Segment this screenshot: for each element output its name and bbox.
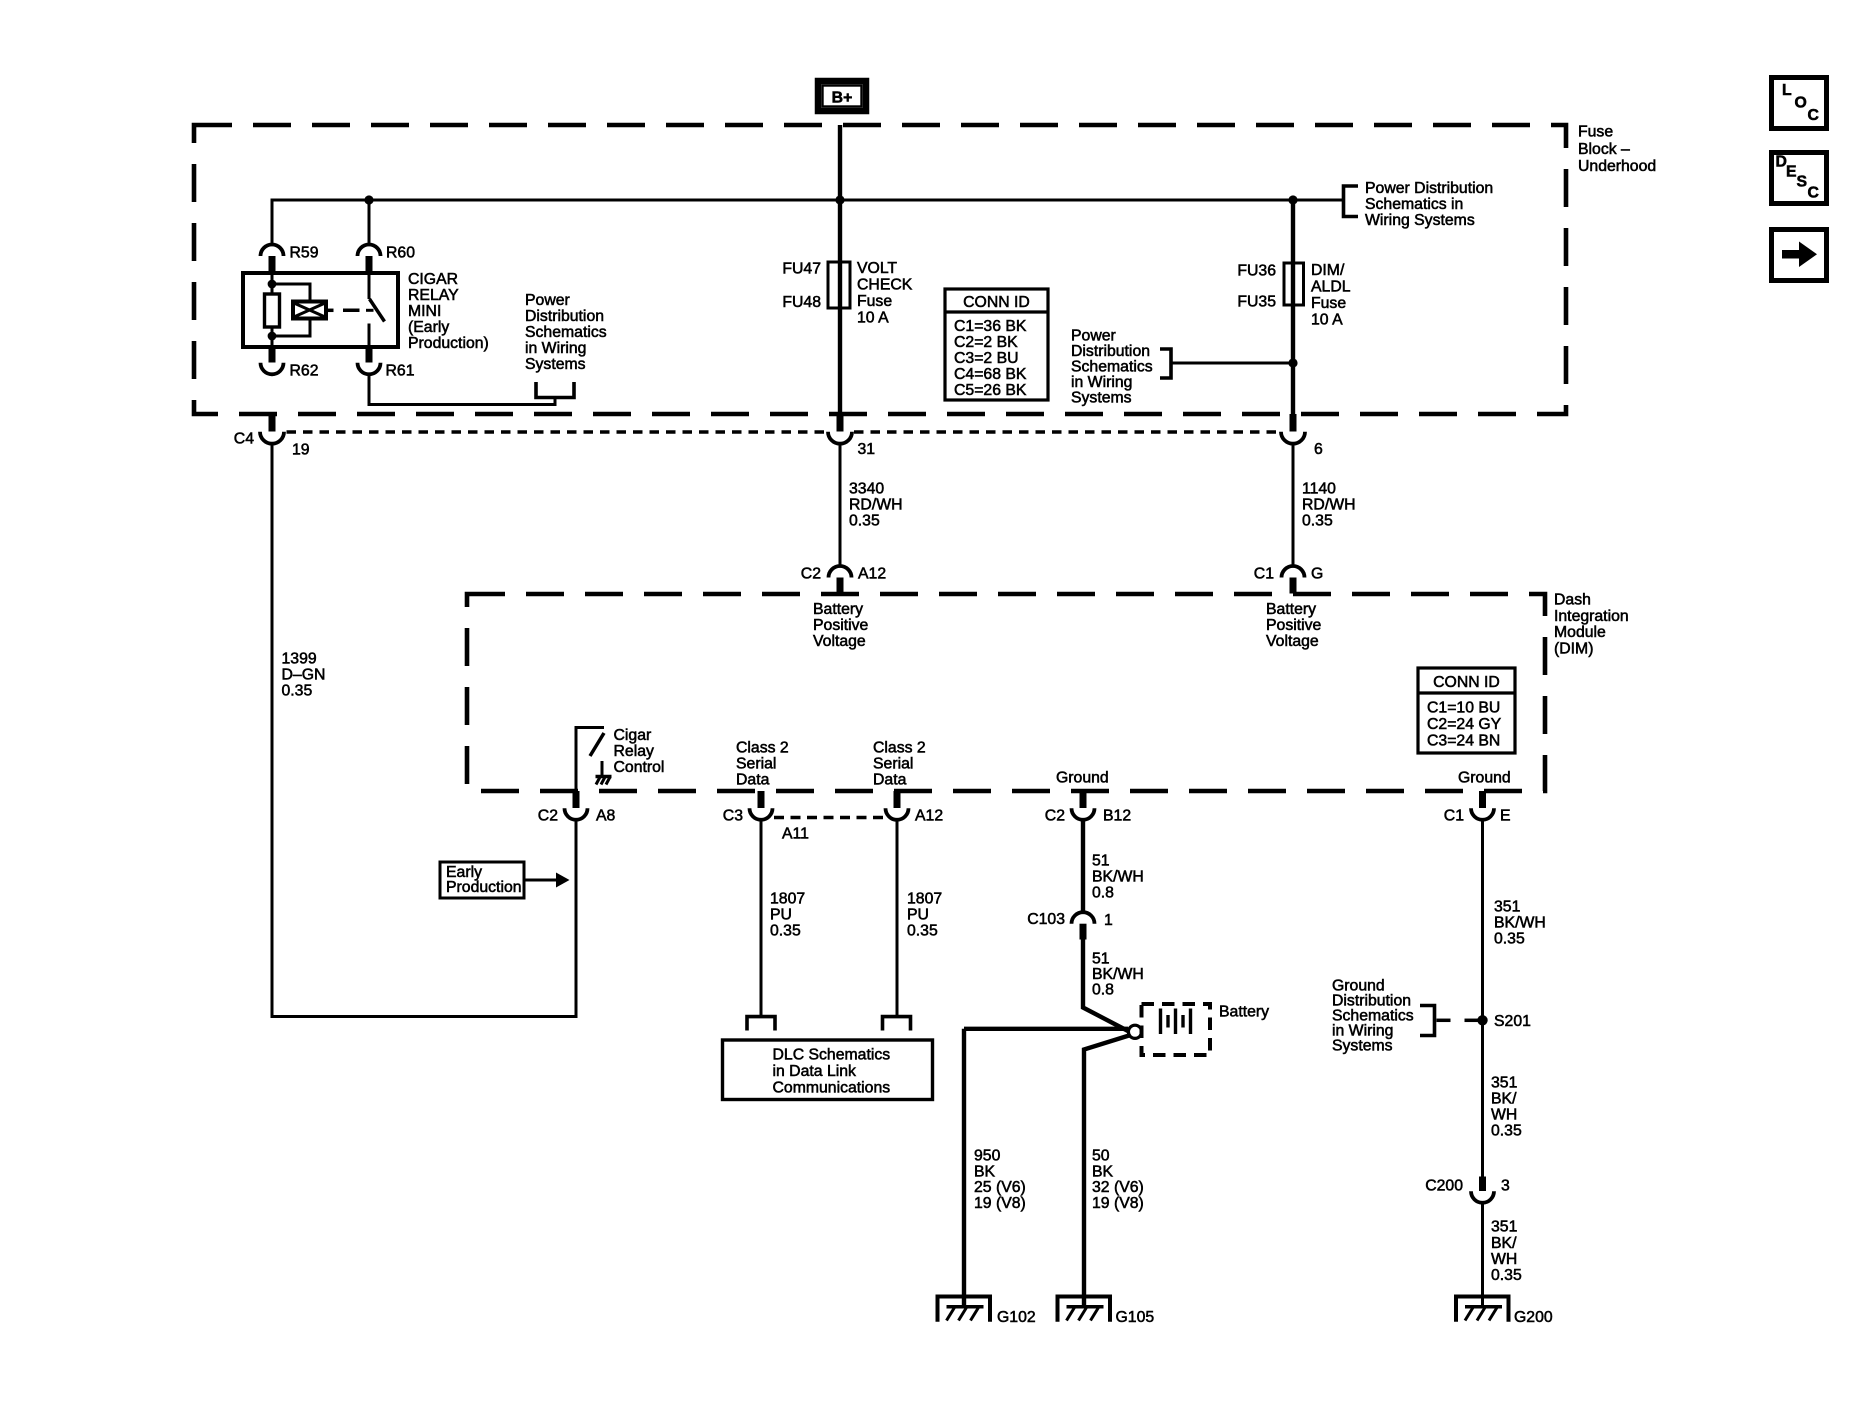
svg-text:C2=24 GY: C2=24 GY [1427, 716, 1502, 733]
svg-text:Communications: Communications [773, 1080, 891, 1097]
svg-text:Fuse: Fuse [857, 293, 892, 310]
node coil bottom [268, 332, 277, 341]
svg-text:CIGAR: CIGAR [408, 271, 458, 288]
svg-text:DLC Schematics: DLC Schematics [773, 1047, 891, 1064]
svg-text:Positive: Positive [1266, 617, 1322, 634]
svg-text:C1=36 BK: C1=36 BK [954, 318, 1027, 335]
connector C2 pin A8 (DIM bottom) [538, 791, 616, 825]
node coil top [268, 280, 277, 289]
LOC navigation icon [1772, 78, 1827, 129]
connector C2 pin B12 (DIM bottom) [1045, 791, 1131, 825]
svg-text:0.35: 0.35 [907, 923, 938, 940]
forward arrow icon [1772, 230, 1827, 281]
connector pin R62 [261, 347, 319, 380]
B+ power symbol [818, 81, 866, 111]
bracket ground distribution [1420, 1006, 1435, 1036]
svg-text:R60: R60 [386, 244, 415, 261]
svg-text:Cigar: Cigar [614, 727, 652, 744]
svg-text:Serial: Serial [736, 756, 776, 773]
svg-text:C103: C103 [1027, 911, 1065, 928]
wire 351 BK/WH (S201 to C200) [1491, 1075, 1522, 1140]
svg-text:0.35: 0.35 [1491, 1123, 1522, 1140]
connector pin R59 [261, 244, 319, 273]
svg-text:Relay: Relay [614, 743, 654, 760]
connector C3 pin A11 (DIM bottom) [723, 791, 773, 825]
svg-text:Production: Production [446, 879, 522, 896]
svg-text:Power: Power [1071, 328, 1116, 345]
Fuse Block - Underhood dashed box [194, 124, 1656, 415]
wire 1807 PU (C3 to DLC) [761, 820, 805, 1017]
wire DIM/ALDL branch [1291, 200, 1295, 414]
svg-text:Positive: Positive [813, 617, 869, 634]
wire 50 BK down to G105 [1084, 1036, 1144, 1307]
wire 351 BK/WH (C200 to G200) [1483, 1203, 1522, 1307]
connector pin 6 [1281, 414, 1323, 458]
CONN ID table DIM [1418, 668, 1515, 753]
ground G105 [1058, 1297, 1155, 1327]
svg-text:Ground: Ground [1056, 770, 1109, 787]
svg-text:Systems: Systems [1332, 1037, 1393, 1054]
svg-text:Systems: Systems [1071, 390, 1132, 407]
svg-text:Data: Data [873, 772, 907, 789]
svg-text:25 (V6): 25 (V6) [974, 1179, 1026, 1196]
label power distribution schematics (mid) [1071, 328, 1153, 407]
mechanical link dashes coil to switch [326, 309, 360, 313]
svg-text:950: 950 [974, 1148, 1001, 1165]
svg-text:10 A: 10 A [1311, 312, 1343, 329]
svg-text:19 (V8): 19 (V8) [974, 1195, 1026, 1212]
svg-text:51: 51 [1092, 951, 1110, 968]
connector C1 pin E (DIM bottom) [1444, 791, 1511, 825]
svg-text:0.35: 0.35 [1494, 931, 1525, 948]
svg-text:Schematics in: Schematics in [1365, 196, 1463, 213]
wire to G102 (horizontal from splice) [964, 1027, 1128, 1031]
svg-text:Underhood: Underhood [1578, 158, 1656, 175]
relay coil box with X [293, 302, 326, 319]
wire 51 BK/WH lower (C103 to battery splice) [1083, 940, 1144, 1032]
svg-text:A8: A8 [596, 808, 616, 825]
wire 3340 RD/WH [840, 443, 903, 566]
bracket top right power distribution [1344, 186, 1359, 217]
svg-text:WH: WH [1491, 1107, 1517, 1124]
label battery positive voltage (right) [1266, 601, 1322, 650]
svg-text:351: 351 [1494, 899, 1521, 916]
svg-text:351: 351 [1491, 1219, 1518, 1236]
wire 51 BK/WH upper (B12 to C103) [1083, 820, 1144, 914]
svg-text:1140: 1140 [1302, 481, 1336, 498]
svg-text:19 (V8): 19 (V8) [1092, 1195, 1144, 1212]
svg-text:6: 6 [1314, 441, 1323, 458]
svg-text:ALDL: ALDL [1311, 279, 1351, 296]
svg-text:G105: G105 [1116, 1309, 1155, 1326]
svg-text:FU35: FU35 [1237, 294, 1276, 311]
svg-text:0.35: 0.35 [849, 513, 880, 530]
svg-text:G102: G102 [997, 1309, 1036, 1326]
svg-text:C3=2 BU: C3=2 BU [954, 350, 1019, 367]
svg-text:1807: 1807 [907, 891, 942, 908]
svg-text:CONN ID: CONN ID [1433, 674, 1500, 691]
svg-text:Power Distribution: Power Distribution [1365, 180, 1493, 197]
svg-text:0.35: 0.35 [1491, 1267, 1522, 1284]
svg-text:RELAY: RELAY [408, 287, 459, 304]
svg-text:Battery: Battery [1266, 601, 1316, 618]
label cigar relay control [614, 727, 665, 776]
connector C2 pin A12 (DIM top) [801, 566, 886, 594]
svg-text:Systems: Systems [525, 356, 586, 373]
svg-text:0.8: 0.8 [1092, 885, 1114, 902]
node junction dot R60 tap [364, 195, 373, 204]
svg-text:1399: 1399 [282, 651, 317, 668]
svg-text:Class 2: Class 2 [873, 740, 926, 757]
resistor (relay suppression) [265, 294, 280, 327]
svg-text:Wiring Systems: Wiring Systems [1365, 212, 1475, 229]
DESC navigation icon [1772, 153, 1827, 204]
svg-text:C1: C1 [1254, 566, 1274, 583]
svg-text:R61: R61 [386, 363, 415, 380]
Dash Integration Module dashed box [467, 592, 1629, 792]
DLC schematics box [723, 1040, 933, 1100]
svg-text:C2: C2 [538, 808, 558, 825]
wire 351 BK/WH (E to S201) [1483, 820, 1546, 1177]
svg-text:FU36: FU36 [1237, 263, 1276, 280]
svg-text:CONN ID: CONN ID [963, 294, 1030, 311]
svg-text:A12: A12 [858, 566, 886, 583]
wire 950 BK down to G102 [964, 1029, 1026, 1307]
svg-text:C5=26 BK: C5=26 BK [954, 382, 1027, 399]
svg-text:Schematics: Schematics [1071, 359, 1153, 376]
svg-text:C4: C4 [234, 431, 254, 448]
svg-text:in Wiring: in Wiring [525, 340, 586, 357]
svg-text:A12: A12 [915, 808, 943, 825]
wire 1399 D-GN from C4 to A8 [272, 443, 576, 1016]
wire R61 to power distribution bracket [369, 374, 555, 405]
Early Production callout box with arrow [440, 862, 570, 898]
label battery positive voltage (left) [813, 601, 869, 650]
svg-text:VOLT: VOLT [857, 260, 897, 277]
label ground distribution schematics [1332, 977, 1414, 1054]
svg-text:C3: C3 [723, 808, 743, 825]
svg-text:Schematics: Schematics [525, 324, 607, 341]
connector pin A12 (DIM bottom) [886, 791, 944, 825]
svg-text:0.35: 0.35 [282, 683, 313, 700]
svg-text:Distribution: Distribution [1071, 343, 1150, 360]
splice S201 [1477, 1013, 1531, 1030]
svg-text:Serial: Serial [873, 756, 913, 773]
svg-text:G: G [1311, 566, 1323, 583]
svg-text:Control: Control [614, 759, 665, 776]
svg-text:Data: Data [736, 772, 770, 789]
svg-text:Dash: Dash [1554, 592, 1591, 609]
svg-text:C2: C2 [801, 566, 821, 583]
svg-text:B+: B+ [832, 90, 853, 107]
svg-text:(Early: (Early [408, 319, 449, 336]
wire bracket to S201 [1437, 1019, 1479, 1023]
node junction dot DIM/ALDL tap [1288, 195, 1297, 204]
svg-text:1: 1 [1104, 912, 1113, 929]
dotted inline connector C4 row [287, 430, 1281, 434]
svg-text:C: C [1808, 107, 1819, 124]
connector C1 pin G (DIM top) [1254, 566, 1324, 594]
svg-text:C2: C2 [1045, 808, 1065, 825]
svg-text:Distribution: Distribution [525, 308, 604, 325]
wire from B+ to bus and through VOLT CHECK fuse [838, 125, 842, 414]
dashed link A11 between connectors [774, 818, 884, 843]
svg-text:L: L [1782, 82, 1792, 99]
cigar relay control driver symbol [576, 728, 612, 792]
fuse FU36/FU35 DIM/ALDL [1237, 262, 1350, 329]
svg-text:E: E [1500, 808, 1511, 825]
svg-text:C200: C200 [1425, 1178, 1463, 1195]
svg-text:A11: A11 [782, 826, 809, 843]
svg-text:G200: G200 [1514, 1309, 1553, 1326]
cigar relay mini box [243, 273, 398, 347]
svg-text:BK/WH: BK/WH [1092, 966, 1144, 983]
connector pin R61 [358, 347, 415, 380]
svg-text:C1=10 BU: C1=10 BU [1427, 700, 1500, 717]
svg-text:Fuse: Fuse [1311, 295, 1346, 312]
svg-text:0.35: 0.35 [1302, 513, 1333, 530]
DLC connector bracket left [747, 1017, 775, 1031]
svg-text:C1: C1 [1444, 808, 1464, 825]
svg-text:0.35: 0.35 [770, 923, 801, 940]
svg-text:1807: 1807 [770, 891, 805, 908]
connector C4 pin 19 [234, 414, 310, 459]
svg-text:O: O [1795, 95, 1807, 112]
svg-text:in Wiring: in Wiring [1071, 374, 1132, 391]
svg-text:in Data Link: in Data Link [773, 1063, 857, 1080]
svg-text:WH: WH [1491, 1251, 1517, 1268]
svg-text:51: 51 [1092, 853, 1110, 870]
svg-text:(DIM): (DIM) [1554, 640, 1593, 657]
svg-text:BK: BK [1092, 1164, 1114, 1181]
svg-text:FU47: FU47 [782, 260, 821, 277]
svg-text:S201: S201 [1494, 1013, 1531, 1030]
svg-text:3: 3 [1501, 1178, 1510, 1195]
label class 2 serial data (right) [873, 740, 926, 789]
svg-text:BK: BK [974, 1164, 996, 1181]
svg-text:BK/WH: BK/WH [1092, 869, 1144, 886]
wire bracket to DIM/ALDL fuse line [1173, 362, 1294, 365]
relay coil branch wires [271, 273, 274, 347]
svg-text:S: S [1797, 174, 1808, 191]
svg-text:RD/WH: RD/WH [849, 497, 903, 514]
connector pin 31 [828, 414, 875, 458]
svg-text:10 A: 10 A [857, 310, 889, 327]
svg-text:50: 50 [1092, 1148, 1110, 1165]
connector pin R60 [358, 244, 416, 273]
svg-text:DIM/: DIM/ [1311, 262, 1345, 279]
svg-text:Fuse: Fuse [1578, 124, 1613, 141]
svg-text:3340: 3340 [849, 481, 884, 498]
svg-text:Voltage: Voltage [1266, 633, 1319, 650]
svg-text:CHECK: CHECK [857, 277, 913, 294]
battery symbol [1142, 1004, 1270, 1056]
svg-text:Ground: Ground [1458, 770, 1511, 787]
svg-text:31: 31 [858, 441, 876, 458]
bracket mid power distribution [1160, 349, 1171, 378]
svg-text:E: E [1786, 164, 1797, 181]
svg-text:FU48: FU48 [782, 294, 821, 311]
label power distribution schematics (top right) [1365, 180, 1493, 229]
svg-text:Battery: Battery [813, 601, 863, 618]
svg-text:Production): Production) [408, 335, 489, 352]
ground G102 [938, 1297, 1036, 1327]
svg-text:C: C [1808, 185, 1819, 202]
label power distribution schematics (relay area) [525, 292, 607, 373]
svg-text:RD/WH: RD/WH [1302, 497, 1356, 514]
svg-text:R62: R62 [290, 363, 319, 380]
svg-text:351: 351 [1491, 1075, 1518, 1092]
svg-text:0.8: 0.8 [1092, 982, 1114, 999]
wire bus inside fuse block [272, 200, 1344, 246]
node battery splice ring [1128, 1025, 1141, 1038]
label class 2 serial data (left) [736, 740, 789, 789]
svg-text:BK/: BK/ [1491, 1091, 1517, 1108]
svg-text:B12: B12 [1103, 808, 1131, 825]
ground G200 [1456, 1297, 1553, 1327]
svg-text:Module: Module [1554, 624, 1606, 641]
bracket to power distribution schematics (relay) [536, 382, 574, 398]
svg-text:Voltage: Voltage [813, 633, 866, 650]
DLC connector bracket right [883, 1017, 911, 1031]
svg-text:C3=24 BN: C3=24 BN [1427, 733, 1500, 750]
svg-text:PU: PU [907, 907, 929, 924]
svg-text:Class 2: Class 2 [736, 740, 789, 757]
relay switch contacts [366, 273, 385, 347]
svg-text:Battery: Battery [1219, 1004, 1269, 1021]
connector C200 pin 3 [1425, 1177, 1510, 1203]
svg-text:R59: R59 [290, 244, 319, 261]
CONN ID table fuse block [945, 289, 1048, 400]
wire R60 branch [368, 200, 371, 246]
wire 1140 RD/WH [1293, 443, 1356, 566]
svg-text:C4=68 BK: C4=68 BK [954, 366, 1027, 383]
fuse FU47/FU48 VOLT CHECK [782, 260, 912, 327]
svg-text:Power: Power [525, 292, 570, 309]
node junction dot B+ tap [835, 195, 844, 204]
svg-text:BK/: BK/ [1491, 1235, 1517, 1252]
svg-text:PU: PU [770, 907, 792, 924]
svg-text:BK/WH: BK/WH [1494, 915, 1546, 932]
connector C103 pin 1 [1027, 911, 1113, 940]
svg-text:32 (V6): 32 (V6) [1092, 1179, 1144, 1196]
svg-text:D–GN: D–GN [282, 667, 326, 684]
svg-text:C2=2 BK: C2=2 BK [954, 334, 1018, 351]
svg-text:Integration: Integration [1554, 608, 1629, 625]
svg-text:Block –: Block – [1578, 141, 1630, 158]
svg-text:19: 19 [292, 442, 310, 459]
wire 1807 PU (A12 to DLC) [897, 820, 942, 1017]
svg-text:MINI: MINI [408, 303, 441, 320]
node junction dot below DIM/ALDL fuse [1288, 358, 1297, 367]
